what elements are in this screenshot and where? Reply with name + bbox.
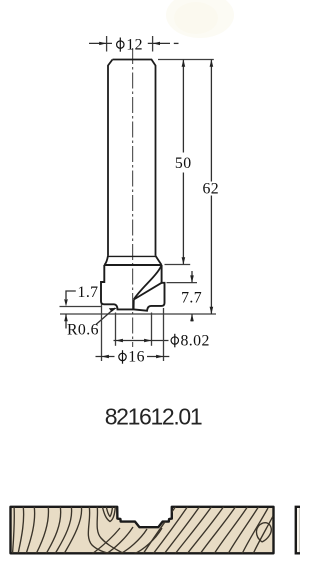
dimension phi12 text [117, 38, 124, 52]
bottom long extension line [60, 313, 216, 315]
tooth face line [133, 300, 135, 310]
svg-text:50: 50 [175, 155, 192, 172]
flare to head [104, 256, 161, 265]
flute gash line [134, 283, 162, 300]
phi16 dimension line [96, 356, 170, 358]
cutter head outline [101, 265, 165, 311]
dimension 50 line [182, 60, 184, 265]
dimension phi12 extension lines [107, 36, 153, 52]
dimension 7.7 arrows [191, 271, 193, 322]
phi16 text [119, 350, 126, 364]
ledge extension line left [60, 306, 103, 308]
dimension 50 arrows [182, 60, 186, 265]
wood sliver right [296, 507, 301, 554]
extension line head top right [165, 264, 191, 266]
extension line carbide step right [167, 282, 198, 284]
svg-text:62: 62 [202, 181, 219, 198]
svg-text:R0.6: R0.6 [67, 322, 99, 339]
phi16 extension lines [102, 304, 164, 361]
svg-text:12: 12 [126, 36, 143, 53]
svg-text:8.02: 8.02 [181, 332, 210, 349]
dimension phi12 arrows [99, 42, 160, 45]
watermark blob [166, 0, 234, 38]
dimension phi12 line [89, 42, 179, 44]
flute edge curve [134, 265, 162, 299]
phi8.02 text [171, 334, 178, 348]
svg-text:821612.01: 821612.01 [105, 404, 202, 430]
centerline [132, 48, 134, 347]
shank outline [108, 60, 156, 256]
dimension 1.7 arrows [64, 299, 68, 321]
phi8.02 extension lines [116, 313, 152, 346]
R0.6 leader [96, 308, 115, 325]
phi8.02 arrows [116, 339, 152, 342]
shank-flare junction line [108, 255, 156, 257]
dimension 1.7 leader bracket [66, 291, 76, 329]
phi8.02 dimension line [114, 340, 169, 342]
dimension 7.7 arrowheads [190, 275, 194, 321]
svg-text:16: 16 [128, 349, 145, 366]
dimension 62 arrows [210, 60, 214, 315]
dimension 62 line [210, 60, 212, 315]
wood grain [13, 505, 274, 554]
svg-text:1.7: 1.7 [78, 284, 99, 301]
phi16 arrows [102, 355, 164, 358]
svg-text:7.7: 7.7 [181, 289, 202, 306]
top extension line for 50 and 62 [158, 59, 214, 61]
wood block with groove [11, 505, 274, 554]
